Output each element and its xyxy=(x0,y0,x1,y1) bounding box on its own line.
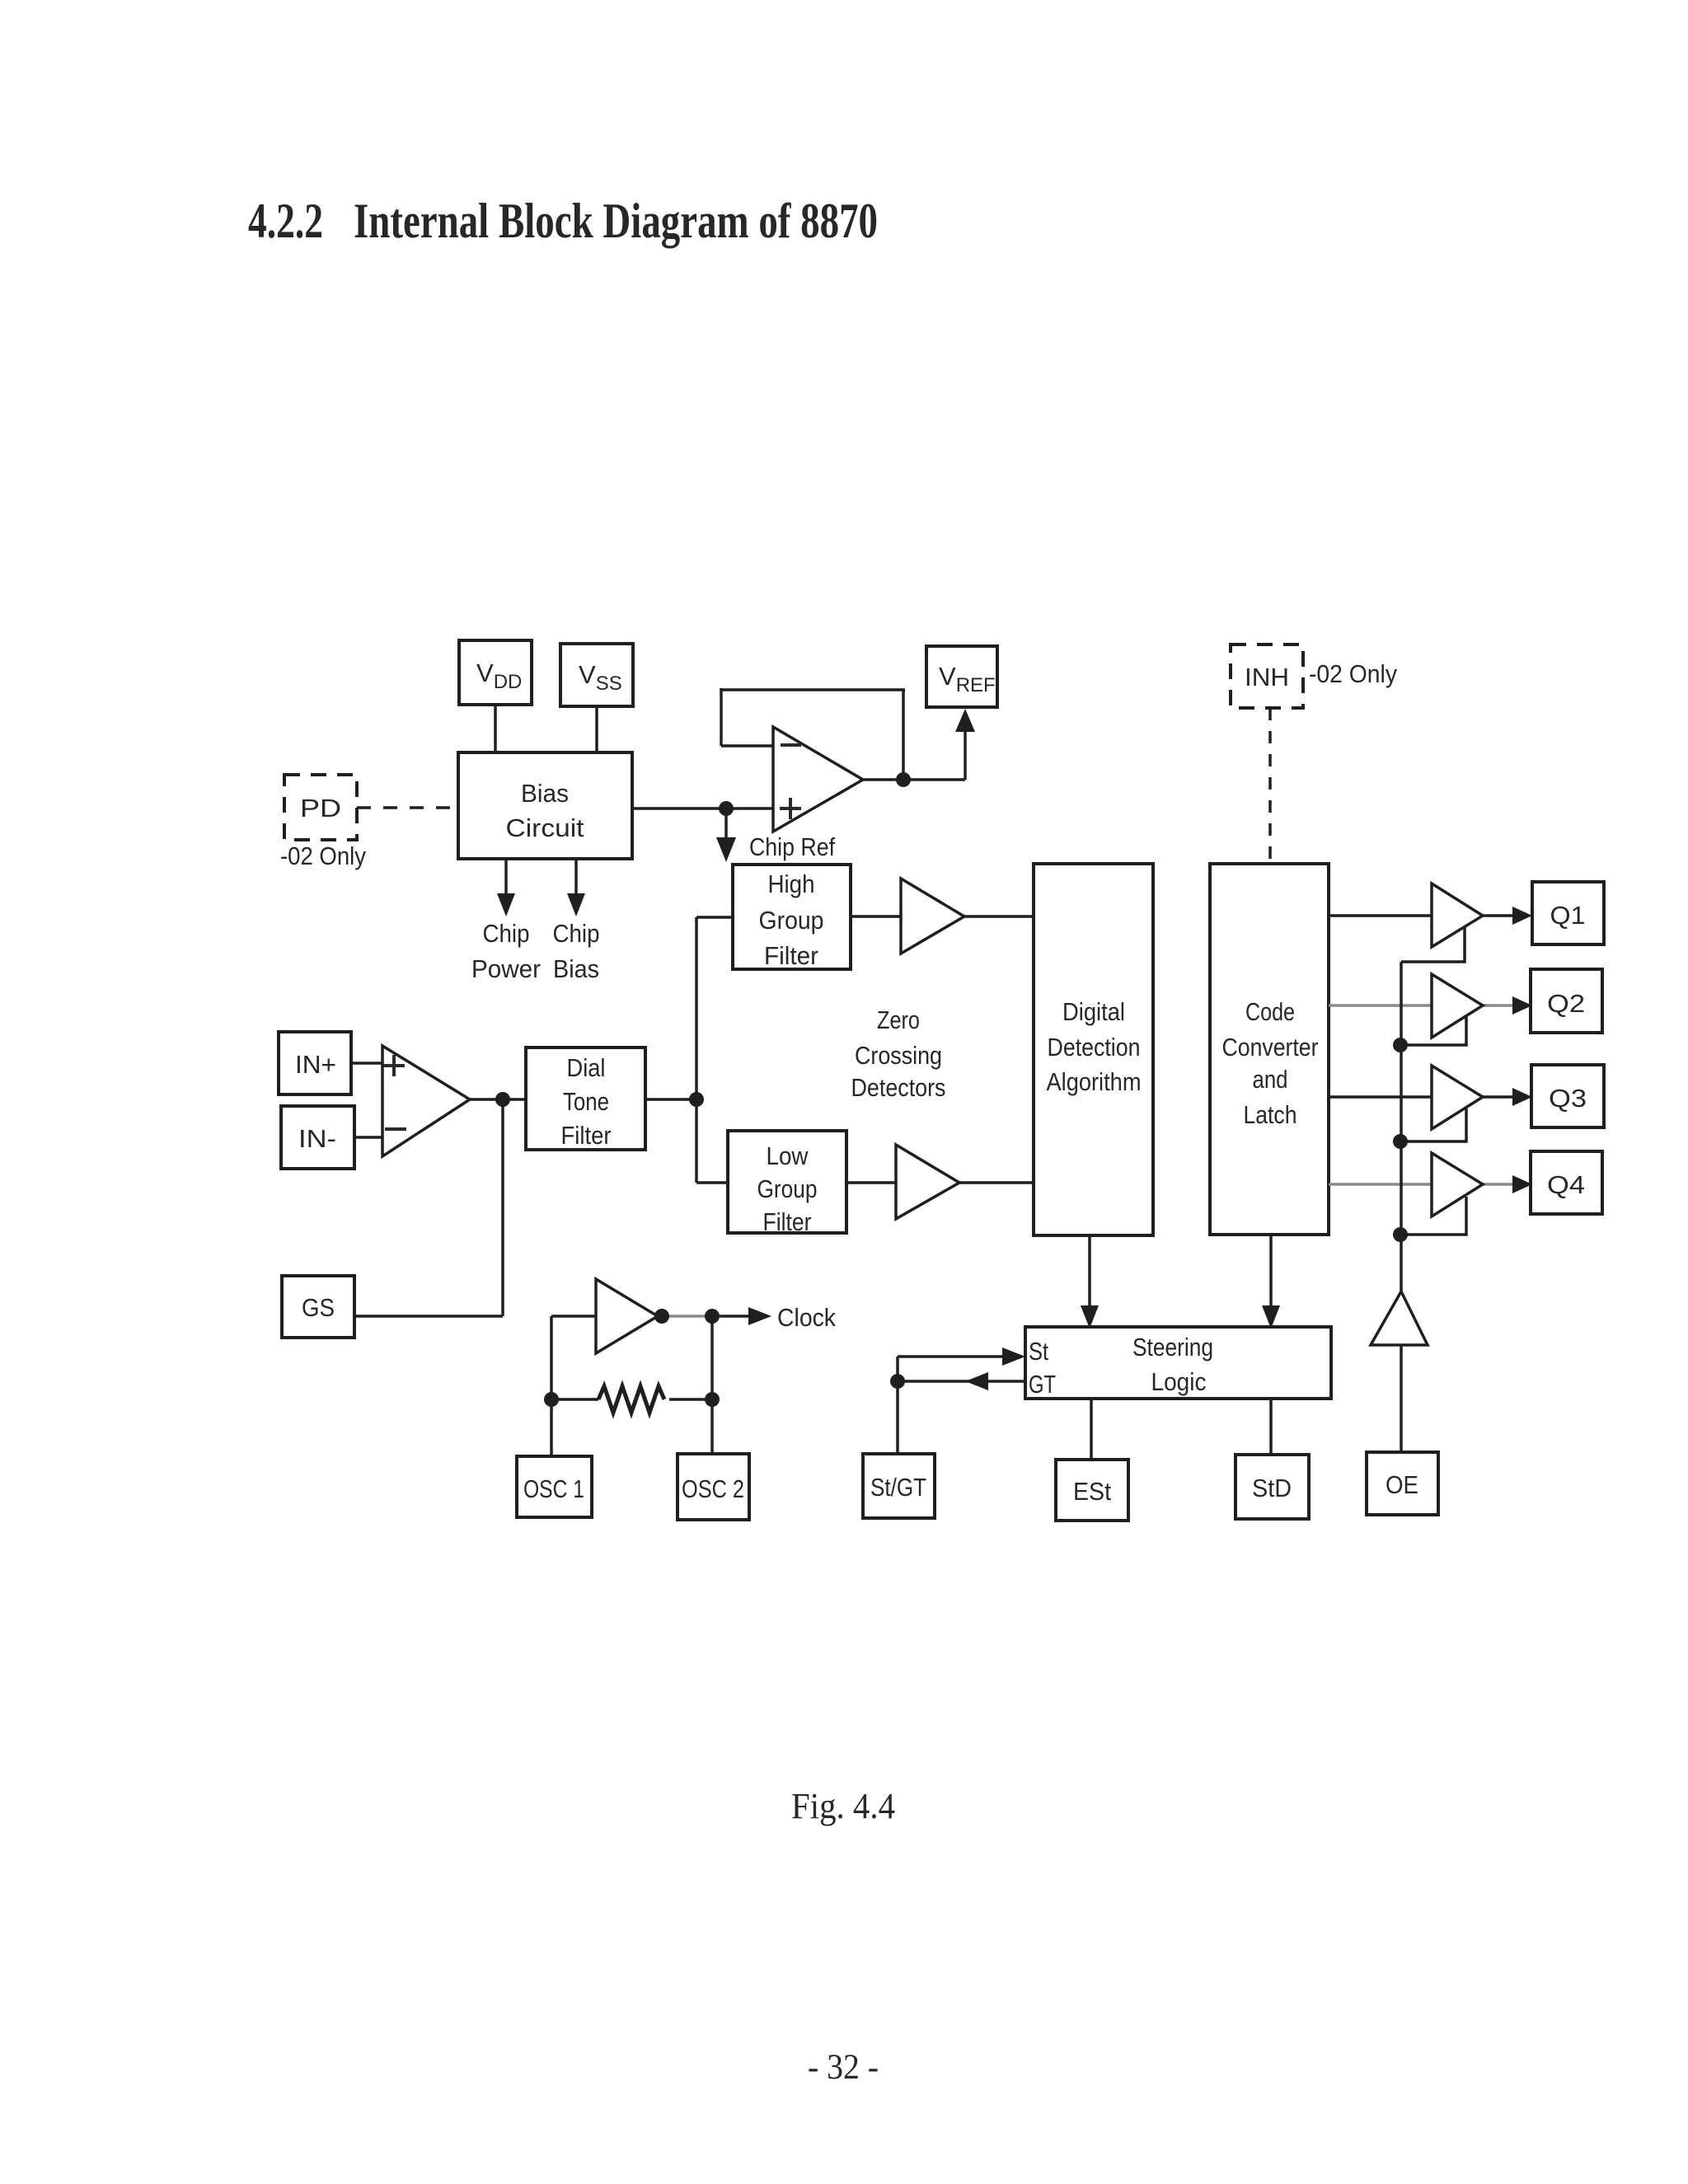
arrowhead DDA into Steering Logic xyxy=(1081,1305,1099,1329)
svg-text:Zero: Zero xyxy=(877,1005,920,1034)
resistor R1 zigzag xyxy=(598,1386,664,1413)
buffer B3 three-state driver xyxy=(1432,1066,1483,1129)
svg-text:-02 Only: -02 Only xyxy=(1309,659,1397,688)
svg-text:Power: Power xyxy=(471,954,541,983)
wire enable bus vertical xyxy=(1400,962,1403,1294)
wire U1 feedback: top horizontal xyxy=(721,688,905,691)
arrowhead Code Converter into Steering Logic xyxy=(1262,1305,1280,1329)
svg-text:Filter: Filter xyxy=(561,1121,612,1150)
wire OE buffer to OE pin xyxy=(1400,1345,1403,1452)
svg-text:Detection: Detection xyxy=(1048,1033,1141,1062)
wire osc input horizontal xyxy=(551,1315,596,1318)
block Code Converter and Latch xyxy=(1210,864,1329,1235)
junction dot resistor left xyxy=(544,1392,559,1407)
wire amp A2 to Digital Detection Algorithm xyxy=(959,1181,1034,1184)
wire enable hook B1 xyxy=(1401,927,1465,962)
arrowhead into Q1 xyxy=(1512,907,1532,925)
wire into Low Group Filter xyxy=(696,1181,728,1184)
wire IN- to input op-amp xyxy=(354,1136,382,1139)
pin box ESt xyxy=(1056,1460,1128,1521)
svg-text:Chip: Chip xyxy=(553,919,600,948)
pin box OSC 2 xyxy=(678,1454,749,1520)
wire Dial Tone Filter output xyxy=(645,1098,696,1101)
svg-text:- 32 -: - 32 - xyxy=(808,2048,879,2087)
wire Code Converter to buffer B2 (faint) xyxy=(1329,1004,1432,1007)
svg-text:GT: GT xyxy=(1029,1370,1056,1399)
svg-text:IN-: IN- xyxy=(298,1124,336,1153)
arrowhead Chip Bias xyxy=(567,893,585,916)
wire input op-amp output to Dial Tone Filter xyxy=(470,1098,526,1101)
junction dot enable bus B2 xyxy=(1393,1038,1408,1052)
wire buffer B1 to Q1 xyxy=(1483,914,1515,917)
section heading 4.2.2 Internal Block Diagram of 8870 xyxy=(248,194,878,248)
wire buffer B3 to Q3 xyxy=(1483,1095,1515,1099)
junction dot input op-amp output / GS feedback xyxy=(495,1092,510,1107)
wire Code Converter to buffer B3 xyxy=(1329,1095,1432,1099)
buffer B2 three-state driver xyxy=(1432,974,1483,1038)
pin box Q3 xyxy=(1531,1065,1604,1127)
junction dot enable bus B4 xyxy=(1393,1227,1408,1242)
wire Steering Logic to ESt xyxy=(1090,1399,1093,1460)
resistor R1 leads xyxy=(551,1398,598,1401)
svg-text:Logic: Logic xyxy=(1151,1367,1207,1396)
arrowhead Chip Power xyxy=(497,893,515,916)
wire INH to Code Converter (dashed) xyxy=(1268,708,1272,864)
svg-text:Group: Group xyxy=(759,906,824,935)
junction dot clock node xyxy=(705,1309,720,1324)
pin box INH (dashed, -02 only) xyxy=(1231,644,1303,708)
wire U1 feedback into - input xyxy=(721,744,773,748)
wire clock node to Clock arrow xyxy=(712,1315,752,1318)
arrowhead into Q4 xyxy=(1512,1175,1532,1193)
svg-text:Circuit: Circuit xyxy=(506,813,584,842)
pin box GS xyxy=(282,1276,354,1338)
wire Bias Circuit output to op-amp U1 + input xyxy=(632,807,773,810)
svg-text:Tone: Tone xyxy=(563,1087,609,1116)
arrowhead into VREF xyxy=(955,709,975,732)
wire U1 feedback: output up xyxy=(902,690,905,780)
wire enable hook B2 xyxy=(1401,1017,1466,1045)
svg-text:Detectors: Detectors xyxy=(851,1073,946,1102)
wire enable hook B4 xyxy=(1401,1197,1466,1235)
svg-text:Converter: Converter xyxy=(1222,1033,1319,1062)
wire Chip Bias arrow stem xyxy=(574,859,578,897)
svg-text:Low: Low xyxy=(767,1141,809,1170)
junction dot St/GT node xyxy=(890,1374,905,1389)
op-amp oscillator inverter xyxy=(596,1279,658,1353)
svg-text:Steering: Steering xyxy=(1132,1333,1213,1361)
svg-text:Fig. 4.4: Fig. 4.4 xyxy=(791,1786,895,1826)
wire GT line from Steering Logic xyxy=(898,1380,1025,1383)
junction dot dial tone filter output node xyxy=(689,1092,704,1107)
svg-text:ESt: ESt xyxy=(1073,1477,1111,1506)
pin box OE xyxy=(1367,1452,1438,1515)
buffer OE enable driver (upward) xyxy=(1371,1291,1428,1345)
block Digital Detection Algorithm xyxy=(1034,864,1153,1235)
wire St line to Steering Logic xyxy=(898,1355,1020,1358)
pin box VDD xyxy=(459,640,532,705)
wire buffer B2 to Q2 xyxy=(1483,1004,1515,1007)
svg-text:Q2: Q2 xyxy=(1547,989,1585,1018)
wire Chip Power arrow stem xyxy=(504,859,508,897)
arrowhead Chip Ref xyxy=(716,837,736,862)
input op-amp plus label xyxy=(383,1055,405,1076)
svg-text:Dial: Dial xyxy=(567,1053,606,1082)
wire Code Converter to buffer B1 xyxy=(1329,914,1432,917)
arrowhead Clock xyxy=(748,1307,771,1325)
wire osc right vertical to OSC 2 xyxy=(710,1316,714,1454)
wire into High Group Filter xyxy=(696,916,733,919)
svg-text:Filter: Filter xyxy=(764,941,818,970)
wire enable hook B3 xyxy=(1401,1108,1466,1141)
svg-text:High: High xyxy=(768,869,815,898)
buffer B4 three-state driver xyxy=(1432,1153,1483,1216)
wire gain node down xyxy=(501,1099,504,1316)
wire buffer B4 to Q4 xyxy=(1483,1183,1515,1186)
svg-text:St: St xyxy=(1029,1337,1048,1366)
svg-text:Chip: Chip xyxy=(483,919,530,948)
amp A1 high group comparator xyxy=(901,879,964,954)
svg-text:Crossing: Crossing xyxy=(855,1041,942,1070)
block Low Group Filter xyxy=(728,1131,846,1233)
svg-text:IN+: IN+ xyxy=(295,1050,336,1079)
wire Low Group Filter to amp A2 xyxy=(846,1181,896,1184)
wire IN+ to input op-amp xyxy=(351,1062,382,1065)
block High Group Filter xyxy=(733,865,851,969)
wire osc output to clock node xyxy=(658,1315,712,1318)
wire PD to Bias Circuit (dashed) xyxy=(357,806,458,809)
svg-text:PD: PD xyxy=(300,794,341,823)
block Dial Tone Filter xyxy=(526,1047,645,1150)
svg-text:OE: OE xyxy=(1386,1470,1418,1499)
pin box VREF xyxy=(926,646,997,707)
block Steering Logic xyxy=(1025,1327,1331,1399)
wire Digital Detection Algorithm to Steering Logic xyxy=(1088,1235,1091,1310)
buffer B1 three-state driver xyxy=(1432,883,1483,947)
junction dot oscillator output xyxy=(654,1309,669,1324)
wire U1 output xyxy=(863,778,965,781)
pin box OSC 1 xyxy=(517,1456,592,1517)
junction dot enable bus B3 xyxy=(1393,1134,1408,1149)
wire osc feedback left vertical xyxy=(550,1316,553,1456)
op-amp U1 plus label xyxy=(780,798,801,819)
svg-text:OSC 1: OSC 1 xyxy=(523,1474,584,1503)
junction dot Bias output / Chip Ref xyxy=(719,801,734,816)
svg-text:Internal Block Diagram of 8870: Internal Block Diagram of 8870 xyxy=(354,194,878,248)
svg-text:4.2.2: 4.2.2 xyxy=(248,194,323,248)
svg-text:and: and xyxy=(1253,1065,1288,1094)
arrowhead St into Steering Logic xyxy=(1002,1347,1025,1366)
pin box PD (dashed, -02 only) xyxy=(284,775,357,840)
pin box IN+ xyxy=(279,1032,351,1094)
pin box Q1 xyxy=(1532,882,1604,944)
arrowhead into Q3 xyxy=(1512,1088,1532,1106)
svg-text:Algorithm: Algorithm xyxy=(1047,1067,1142,1096)
svg-text:Code: Code xyxy=(1245,997,1295,1026)
svg-text:Digital: Digital xyxy=(1062,997,1125,1026)
wire Code Converter to buffer B4 (faint) xyxy=(1329,1183,1432,1186)
wire St line vertical xyxy=(896,1357,899,1381)
svg-text:Bias: Bias xyxy=(521,779,569,808)
wire VDD to Bias Circuit xyxy=(494,705,497,752)
svg-text:Filter: Filter xyxy=(763,1207,812,1236)
svg-text:GS: GS xyxy=(302,1293,335,1322)
wire St/GT up to node xyxy=(896,1381,899,1454)
wire U1 feedback: left vertical xyxy=(720,688,723,746)
amp A2 low group comparator xyxy=(896,1145,959,1219)
input op-amp minus label xyxy=(385,1127,406,1131)
svg-text:INH: INH xyxy=(1245,663,1289,691)
pin box VSS xyxy=(560,644,633,706)
wire High Group Filter to amp A1 xyxy=(851,915,901,918)
pin box St/GT xyxy=(863,1454,935,1518)
svg-text:Q3: Q3 xyxy=(1549,1084,1587,1113)
svg-text:StD: StD xyxy=(1252,1474,1292,1502)
svg-text:Q4: Q4 xyxy=(1547,1170,1585,1199)
wire Code Converter to Steering Logic (StD path) xyxy=(1269,1235,1273,1310)
svg-text:Chip Ref: Chip Ref xyxy=(749,832,835,861)
arrowhead GT toward node xyxy=(965,1372,988,1390)
svg-text:Clock: Clock xyxy=(777,1303,836,1332)
pin box IN- xyxy=(281,1106,354,1169)
block Bias Circuit xyxy=(458,752,632,859)
wire GS to gain node xyxy=(354,1315,503,1318)
pin box Q4 xyxy=(1531,1151,1602,1214)
pin box StD xyxy=(1236,1455,1309,1519)
junction dot U1 output node xyxy=(896,772,911,787)
wire Steering Logic to StD xyxy=(1269,1399,1273,1455)
op-amp input differential amplifier xyxy=(382,1046,470,1156)
wire amp A1 to Digital Detection Algorithm xyxy=(964,915,1034,918)
wire Chip Ref arrow stem xyxy=(724,808,728,841)
arrowhead into Q2 xyxy=(1512,996,1532,1015)
junction dot resistor right xyxy=(705,1392,720,1407)
svg-text:St/GT: St/GT xyxy=(870,1473,926,1502)
pin box Q2 xyxy=(1531,969,1602,1033)
svg-text:-02 Only: -02 Only xyxy=(280,841,366,870)
svg-text:Bias: Bias xyxy=(553,954,599,983)
svg-text:Latch: Latch xyxy=(1244,1100,1297,1129)
op-amp U1 reference buffer xyxy=(773,727,863,832)
svg-text:OSC 2: OSC 2 xyxy=(682,1474,744,1503)
wire VSS to Bias Circuit xyxy=(595,706,598,752)
wire filter input bus vertical xyxy=(695,917,698,1183)
op-amp U1 minus label xyxy=(781,743,801,747)
wire U1 output up to VREF xyxy=(964,730,967,780)
svg-text:Q1: Q1 xyxy=(1550,901,1586,930)
svg-text:Group: Group xyxy=(757,1174,818,1203)
